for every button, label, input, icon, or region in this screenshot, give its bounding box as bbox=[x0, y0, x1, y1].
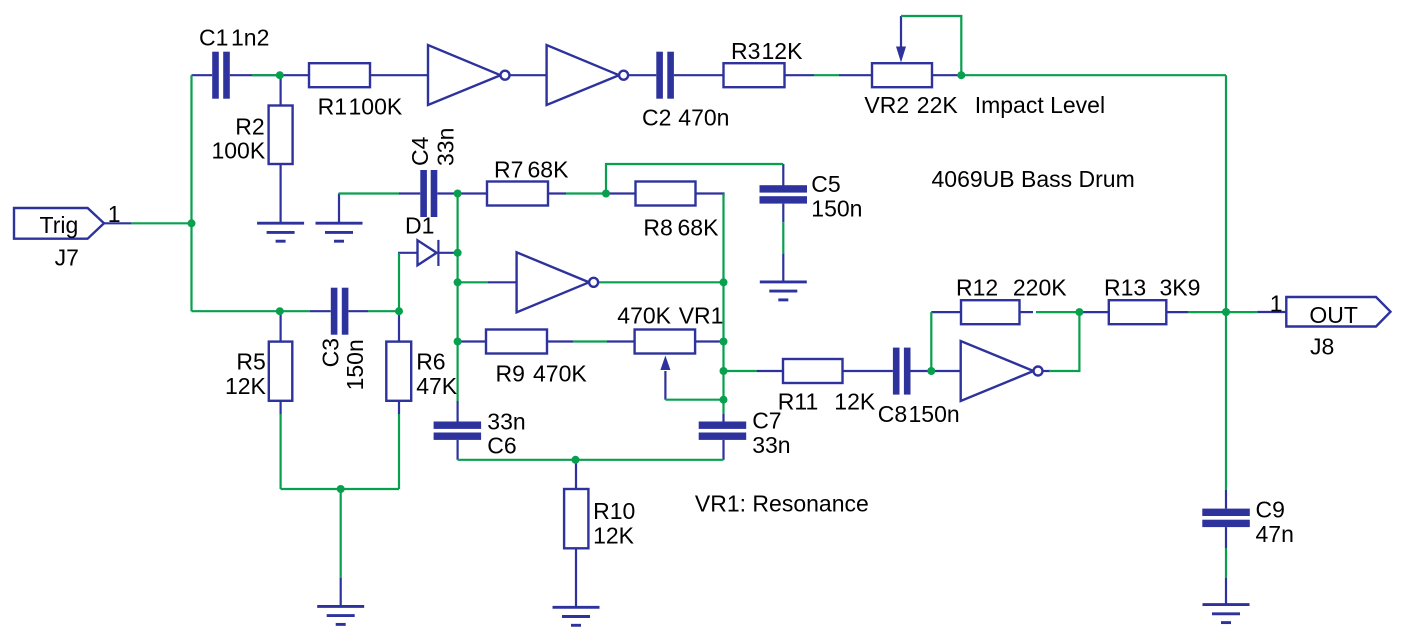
diode D1 bbox=[418, 240, 439, 266]
svg-text:1n2: 1n2 bbox=[231, 25, 269, 51]
svg-text:33n: 33n bbox=[752, 432, 790, 458]
svg-text:68K: 68K bbox=[678, 215, 720, 241]
wire VR1 right stub bbox=[695, 340, 720, 342]
resistor R9 bbox=[486, 330, 547, 354]
node C8-U4 junction bbox=[927, 367, 935, 375]
svg-text:47n: 47n bbox=[1256, 521, 1294, 547]
svg-text:1: 1 bbox=[1270, 291, 1283, 317]
svg-text:C2: C2 bbox=[642, 104, 671, 130]
wire net U3 input bbox=[458, 281, 488, 283]
wire R8 right stub bbox=[696, 194, 724, 197]
resistor R11 bbox=[783, 359, 843, 383]
capacitor C3 bbox=[331, 288, 349, 335]
resistor R5 bbox=[269, 342, 293, 401]
wire C6 top stem bbox=[457, 401, 459, 422]
capacitor C6 bbox=[434, 422, 482, 440]
wire ground stem near C4 bbox=[338, 194, 340, 223]
wire net ground to C4 bbox=[339, 192, 400, 194]
op-amp inverter U3 bbox=[517, 252, 599, 312]
node OUT junction bbox=[1222, 308, 1230, 316]
wire C8 right stub bbox=[911, 370, 930, 372]
wire net VR1 wiper row bbox=[665, 399, 723, 401]
wire R2 top stem bbox=[280, 75, 282, 105]
node U3 output junction bbox=[720, 278, 728, 286]
svg-text:C5: C5 bbox=[811, 171, 840, 197]
wire U4 output stub bbox=[1043, 370, 1051, 372]
wire R7 right stub bbox=[549, 192, 567, 194]
wire net Trig vertical riser bbox=[190, 75, 192, 311]
svg-text:R9: R9 bbox=[496, 360, 525, 386]
wire R7 left stub bbox=[459, 192, 487, 194]
wire net U4 output loop bbox=[1049, 312, 1079, 371]
svg-text:R8: R8 bbox=[643, 215, 672, 241]
potentiometer VR1 body bbox=[635, 330, 696, 354]
svg-text:R11: R11 bbox=[778, 388, 819, 414]
capacitor C7 bbox=[699, 422, 747, 440]
svg-text:C3: C3 bbox=[317, 338, 343, 367]
wire C2 to R3 bbox=[674, 74, 724, 76]
svg-text:470n: 470n bbox=[678, 104, 729, 130]
svg-text:C1: C1 bbox=[199, 25, 228, 51]
wire R9 right stub bbox=[548, 340, 573, 342]
wire R12 right stub bbox=[1020, 311, 1034, 313]
wire net VR2 out top rail bbox=[959, 74, 1226, 76]
wire net bottom-left rail bbox=[281, 488, 399, 490]
wire net right vertical bus bbox=[722, 194, 724, 415]
wire C4 left stub bbox=[399, 192, 420, 194]
wire inverter U3 input stub bbox=[488, 281, 517, 283]
node R10 top junction bbox=[572, 456, 580, 464]
resistor R3 bbox=[724, 63, 785, 87]
wire net C9 lower bbox=[1225, 548, 1227, 578]
svg-text:470K: 470K bbox=[617, 303, 671, 329]
capacitor C5 bbox=[760, 185, 808, 203]
wire net R6 lower bbox=[398, 414, 400, 489]
node Trig junction bbox=[188, 219, 196, 227]
svg-text:J8: J8 bbox=[1310, 334, 1334, 360]
svg-text:C9: C9 bbox=[1256, 497, 1285, 523]
svg-text:4069UB Bass Drum: 4069UB Bass Drum bbox=[932, 166, 1135, 192]
resistor R7 bbox=[487, 182, 548, 206]
resistor R8 bbox=[636, 182, 696, 206]
svg-text:R2: R2 bbox=[235, 113, 264, 139]
wire C6 bottom stem bbox=[457, 440, 459, 460]
svg-text:D1: D1 bbox=[405, 213, 434, 239]
wire C9 bottom stub bbox=[1225, 527, 1227, 548]
svg-text:1: 1 bbox=[108, 201, 121, 227]
wire R3 right stub bbox=[785, 74, 815, 76]
svg-text:R5: R5 bbox=[236, 349, 265, 375]
node C3 left junction bbox=[276, 307, 284, 315]
wire net R13 to OUT bbox=[1188, 311, 1257, 313]
wire R5 top stem bbox=[280, 311, 282, 341]
resistor R12 bbox=[961, 300, 1020, 324]
op-amp inverter U4 bbox=[961, 341, 1043, 401]
wire R8 left stub bbox=[608, 192, 636, 194]
wire VR1 wiper shaft bbox=[664, 371, 666, 400]
node R11 input junction bbox=[720, 367, 728, 375]
wire R10 top stem bbox=[575, 461, 577, 489]
svg-text:R6: R6 bbox=[416, 349, 445, 375]
wire R1 to inverter U1 bbox=[370, 74, 428, 76]
node C4 output junction bbox=[454, 190, 462, 198]
svg-text:R1: R1 bbox=[318, 94, 347, 120]
op-amp inverter U2 bbox=[547, 45, 629, 105]
wire net C5 lower bbox=[782, 222, 784, 253]
wire R12 left stub bbox=[931, 311, 961, 313]
svg-text:12K: 12K bbox=[225, 373, 267, 399]
wire net R9 to VR1 bbox=[573, 340, 607, 342]
resistor R1 bbox=[309, 63, 370, 87]
wire C5 ground stem bbox=[782, 253, 784, 282]
wire C3 left stub bbox=[310, 310, 331, 312]
capacitor C1 bbox=[212, 52, 230, 99]
wire R9 left stub bbox=[459, 340, 486, 342]
wire C9 ground stem bbox=[1225, 578, 1227, 605]
svg-text:VR2: VR2 bbox=[864, 92, 909, 118]
wire D1 cathode stub bbox=[438, 252, 456, 254]
wire net right vertical drop to OUT row bbox=[1225, 75, 1227, 312]
wire net after C1 bbox=[252, 74, 277, 76]
wire net left vertical bus bbox=[457, 194, 459, 402]
svg-text:R10: R10 bbox=[593, 498, 635, 524]
node D1 cathode junction bbox=[454, 249, 462, 257]
svg-text:VR1: VR1 bbox=[679, 303, 724, 329]
svg-text:12K: 12K bbox=[593, 522, 635, 548]
svg-text:220K: 220K bbox=[1013, 274, 1067, 300]
potentiometer VR2 body bbox=[872, 63, 932, 87]
svg-text:150n: 150n bbox=[342, 339, 368, 390]
wire OUT pin stub bbox=[1257, 311, 1286, 313]
node U3 input junction bbox=[454, 278, 462, 286]
svg-text:C4: C4 bbox=[407, 136, 433, 166]
wire R6 top stem bbox=[398, 311, 400, 341]
wire net R7 node riser bbox=[606, 164, 783, 194]
wire net OUT node down to C9 bbox=[1225, 312, 1227, 490]
wire R13 right stub bbox=[1166, 311, 1188, 313]
svg-text:12K: 12K bbox=[834, 388, 876, 414]
wire C4 right stub bbox=[437, 192, 456, 194]
wire net U3 output bbox=[598, 281, 723, 283]
wire net C3 right to R6 node bbox=[368, 310, 399, 312]
potentiometer VR1 wiper arrowhead bbox=[660, 356, 670, 371]
svg-text:R13: R13 bbox=[1104, 274, 1146, 300]
wire net C6 C7 bottom rail bbox=[458, 459, 724, 461]
wire C9 top stem bbox=[1225, 490, 1227, 509]
wire net Trig horizontal bbox=[131, 222, 192, 224]
wire R5 bottom stub bbox=[280, 401, 282, 414]
wire VR2 right stub bbox=[932, 74, 959, 76]
resistor R6 bbox=[386, 342, 411, 401]
wire C3 right stub bbox=[348, 310, 368, 312]
resistor R10 bbox=[564, 489, 588, 548]
node C3 right junction bbox=[395, 307, 403, 315]
wire C1 left stub bbox=[192, 74, 213, 76]
svg-text:22K: 22K bbox=[917, 92, 959, 118]
wire C7 bottom stem bbox=[722, 440, 724, 460]
resistor R2 bbox=[269, 106, 293, 165]
svg-text:100K: 100K bbox=[349, 94, 403, 120]
wire C7 top stem bbox=[722, 414, 724, 422]
wire VR1 left stub bbox=[607, 340, 635, 342]
svg-text:R3: R3 bbox=[731, 38, 760, 64]
wire net bottom-left row to C3 bbox=[192, 310, 311, 312]
ground bottom-left bbox=[317, 606, 364, 624]
wire net R7 to R8 bbox=[566, 192, 608, 194]
svg-text:150n: 150n bbox=[811, 195, 862, 221]
svg-text:3K9: 3K9 bbox=[1160, 274, 1201, 300]
wire net VR2 wiper loop bbox=[901, 16, 961, 75]
wire VR2 left stub bbox=[839, 74, 872, 76]
wire R2 bottom to ground bbox=[280, 164, 282, 222]
node R7-R8 junction bbox=[602, 190, 610, 198]
svg-text:470K: 470K bbox=[533, 360, 587, 386]
svg-text:47K: 47K bbox=[416, 373, 458, 399]
node VR2 output junction bbox=[957, 71, 965, 79]
node C1-R1-R2 junction bbox=[276, 71, 284, 79]
svg-text:33n: 33n bbox=[487, 408, 525, 434]
capacitor C8 bbox=[893, 348, 911, 395]
svg-text:150n: 150n bbox=[909, 401, 960, 427]
wire net bottom-left ground drop bbox=[340, 489, 342, 578]
ground under R2 bbox=[257, 223, 304, 241]
svg-text:J7: J7 bbox=[55, 244, 79, 270]
svg-text:12K: 12K bbox=[762, 38, 804, 64]
node VR1 wiper junction bbox=[720, 396, 728, 404]
wire R11 to C8 bbox=[843, 370, 893, 372]
wire net D1 anode bbox=[398, 253, 400, 311]
svg-text:R12: R12 bbox=[956, 274, 998, 300]
resistor R13 bbox=[1109, 300, 1167, 324]
wire net node to R11 bbox=[724, 370, 758, 372]
ground under R10 bbox=[553, 607, 600, 625]
wire U1 out to U2 in bbox=[510, 74, 547, 76]
svg-text:C8: C8 bbox=[878, 401, 907, 427]
wire inverter U4 input stub bbox=[934, 370, 961, 372]
wire R13 left stub bbox=[1079, 311, 1108, 313]
ground under C9 bbox=[1203, 605, 1250, 623]
svg-text:33n: 33n bbox=[433, 128, 459, 166]
wire C1 right to R1 left bbox=[230, 74, 309, 76]
wire net C8 node riser to R12 bbox=[930, 312, 932, 371]
connector J8 OUT bbox=[1286, 297, 1390, 327]
svg-text:100K: 100K bbox=[211, 137, 265, 163]
svg-text:Trig: Trig bbox=[40, 212, 79, 238]
wire C5 top stem bbox=[782, 164, 784, 186]
svg-text:Impact Level: Impact Level bbox=[975, 92, 1105, 118]
svg-text:R7: R7 bbox=[494, 157, 523, 183]
op-amp inverter U1 bbox=[428, 45, 510, 105]
svg-text:OUT: OUT bbox=[1309, 302, 1358, 328]
node VR1 right junction bbox=[720, 338, 728, 346]
wire R10 bottom to ground bbox=[575, 548, 577, 607]
capacitor C4 bbox=[420, 170, 437, 217]
svg-text:C6: C6 bbox=[487, 433, 516, 459]
capacitor C9 bbox=[1202, 509, 1250, 528]
node R12-R13 junction bbox=[1075, 308, 1083, 316]
potentiometer VR2 wiper arrowhead bbox=[896, 47, 906, 63]
connector J7 Trig bbox=[14, 208, 104, 239]
node bottom-left ground junction bbox=[337, 485, 345, 493]
wire ground stem bottom-left bbox=[340, 578, 342, 607]
wire net R5 lower bbox=[280, 414, 282, 489]
wire U2 out to C2 bbox=[628, 74, 656, 76]
ground under C5 bbox=[760, 282, 807, 300]
wire Trig pin stub bbox=[104, 222, 131, 224]
wire VR2 wiper shaft bbox=[900, 16, 902, 48]
capacitor C2 bbox=[656, 52, 674, 99]
wire C5 bottom stub bbox=[782, 204, 784, 223]
wire R11 left stub bbox=[757, 370, 783, 372]
wire net R12 to R13 bbox=[1036, 311, 1079, 313]
node R9 left junction bbox=[454, 338, 462, 346]
svg-text:VR1: Resonance: VR1: Resonance bbox=[695, 491, 869, 517]
wire D1 anode stub bbox=[398, 252, 418, 254]
wire R6 bottom stub bbox=[398, 401, 400, 414]
wire net R3 to VR2 bbox=[814, 74, 839, 76]
svg-text:68K: 68K bbox=[528, 157, 570, 183]
ground floating near C4 bbox=[316, 223, 363, 241]
